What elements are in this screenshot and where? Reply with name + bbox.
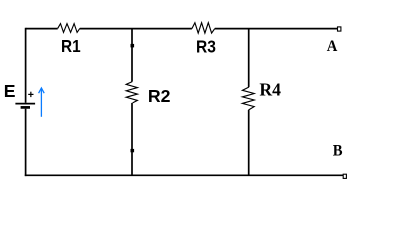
svg-text:A: A (327, 37, 338, 55)
battery E: short plate (21, 106, 30, 109)
terminal A (338, 27, 341, 31)
resistor R3 (192, 23, 215, 33)
wire: R4 branch lower (248, 110, 250, 175)
current arrow (blue) (40, 89, 42, 117)
svg-text:E: E (4, 81, 16, 101)
wire: top, R3 to terminal A (215, 28, 338, 30)
svg-text:R1: R1 (61, 36, 81, 56)
wire: R4 branch upper (248, 29, 250, 87)
resistor R4 (242, 87, 254, 110)
wire: R2 branch upper (131, 29, 133, 82)
svg-text:B: B (333, 142, 343, 160)
resistor R2 (126, 82, 137, 103)
wire: top, left corner to R1 (26, 28, 58, 30)
svg-text:R3: R3 (196, 36, 216, 56)
junction dot upper on R2 branch (131, 44, 135, 48)
wire: left, battery down to bottom corner (25, 109, 27, 176)
battery plus sign (28, 93, 33, 95)
wire: R2 branch lower (131, 103, 133, 175)
wire: left, corner down to battery (25, 28, 27, 103)
wire: bottom, to terminal B (25, 174, 343, 176)
resistor R1 (58, 24, 80, 33)
battery E: long plate (15, 103, 35, 105)
wire: top, R1 to R3 (80, 28, 192, 30)
svg-text:R4: R4 (259, 80, 281, 100)
junction dot lower on R2 branch (131, 149, 135, 152)
svg-text:R2: R2 (148, 86, 171, 106)
terminal B (343, 174, 346, 178)
